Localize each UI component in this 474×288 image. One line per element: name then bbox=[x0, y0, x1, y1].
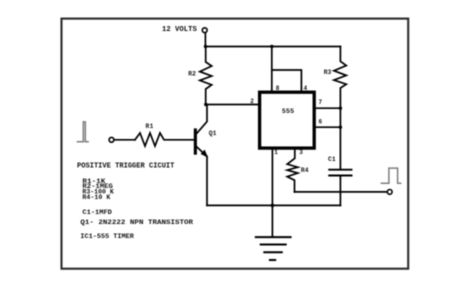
svg-text:C1-1MFD: C1-1MFD bbox=[82, 209, 112, 216]
svg-text:Q1: Q1 bbox=[209, 130, 217, 137]
wire ground rail bbox=[207, 204, 340, 206]
svg-text:2: 2 bbox=[250, 98, 254, 105]
svg-text:555: 555 bbox=[282, 108, 294, 116]
terminal input bbox=[109, 137, 114, 142]
IC 555 U1 bbox=[260, 92, 315, 148]
node VCC-left bbox=[204, 45, 207, 48]
wire output bbox=[295, 191, 388, 193]
ground bbox=[256, 237, 291, 260]
svg-text:C1: C1 bbox=[328, 156, 336, 163]
node pin7-R3 bbox=[339, 107, 342, 110]
wire pin1 bbox=[271, 150, 273, 206]
resistor R2 bbox=[200, 47, 212, 105]
terminal 12V bbox=[202, 28, 207, 33]
output pulse glyph bbox=[381, 168, 402, 183]
node pin6-C1 bbox=[339, 126, 342, 129]
wire VCC rail bbox=[206, 46, 341, 48]
resistor R1 bbox=[135, 133, 194, 146]
wire input bbox=[114, 139, 135, 141]
wire pin8-pin4 bracket bbox=[272, 70, 302, 91]
svg-text:R3: R3 bbox=[324, 69, 332, 76]
svg-text:R4: R4 bbox=[301, 167, 309, 174]
svg-text:1: 1 bbox=[274, 149, 278, 156]
svg-text:Q1- 2N2222 NPN TRANSISTOR: Q1- 2N2222 NPN TRANSISTOR bbox=[80, 219, 193, 226]
svg-text:12 VOLTS: 12 VOLTS bbox=[162, 26, 197, 34]
svg-text:R1: R1 bbox=[146, 123, 154, 130]
wire 12V drop bbox=[204, 33, 206, 47]
input pulse glyph bbox=[77, 122, 89, 142]
svg-text:3: 3 bbox=[299, 149, 303, 156]
transistor Q1 bbox=[194, 128, 197, 154]
node R2-pin2 bbox=[204, 103, 207, 106]
node VCC-pin8 bbox=[270, 45, 273, 48]
wire C1-ground bbox=[339, 176, 341, 205]
wire pin8 bbox=[271, 47, 273, 91]
node ground bbox=[271, 204, 275, 208]
svg-text:IC1-555 TIMER: IC1-555 TIMER bbox=[80, 233, 134, 240]
wire ground stem bbox=[271, 205, 273, 237]
capacitor C1 bbox=[329, 169, 351, 171]
wire pin2 bbox=[206, 104, 258, 106]
svg-text:8: 8 bbox=[276, 85, 280, 92]
svg-text:7: 7 bbox=[319, 99, 323, 106]
svg-text:4: 4 bbox=[304, 85, 308, 92]
resistor R4 bbox=[287, 150, 298, 192]
svg-text:R4-10 K: R4-10 K bbox=[82, 194, 110, 201]
svg-text:R2: R2 bbox=[188, 70, 196, 77]
svg-text:6: 6 bbox=[319, 119, 323, 126]
wire pin7 bbox=[316, 107, 341, 109]
svg-text:POSITIVE TRIGGER CICUIT: POSITIVE TRIGGER CICUIT bbox=[77, 163, 174, 171]
wire pin6 bbox=[316, 126, 341, 128]
terminal output bbox=[387, 190, 392, 195]
resistor R3 bbox=[334, 47, 346, 170]
